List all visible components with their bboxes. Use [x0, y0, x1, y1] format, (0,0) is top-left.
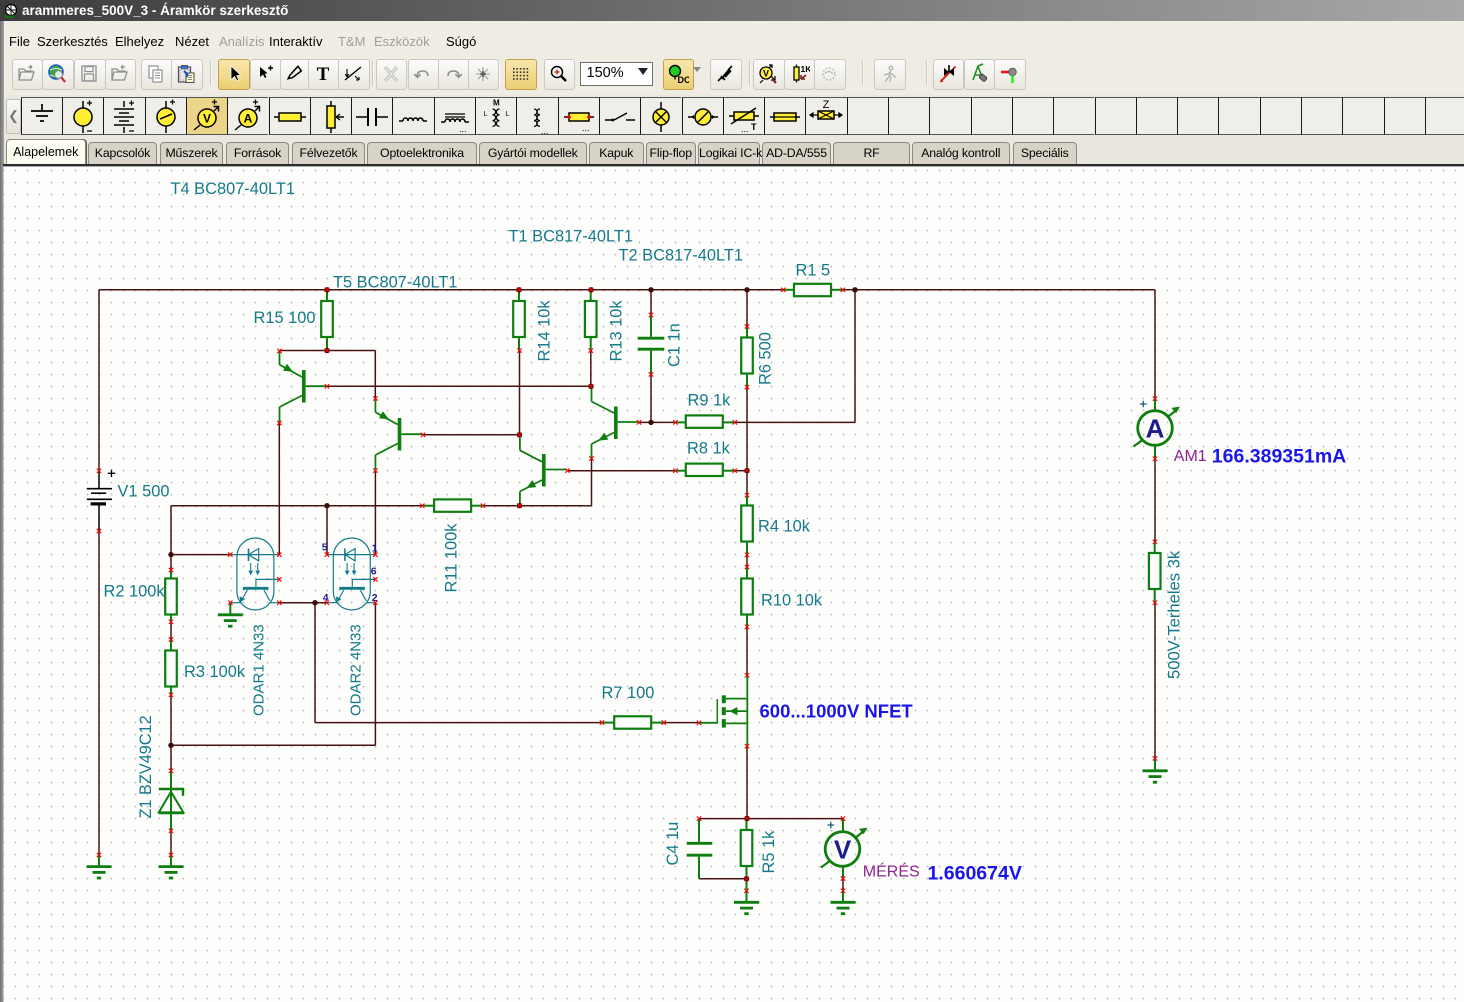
transistor T5 (PNP) — [280, 351, 327, 423]
svg-text:ODAR1 4N33: ODAR1 4N33 — [251, 624, 268, 716]
svg-text:6: 6 — [371, 566, 377, 578]
resistor R11 — [434, 499, 471, 511]
resistor 500V-Terheles — [1149, 553, 1161, 589]
wire: vertical to T4 emitter — [374, 351, 376, 399]
resistor R13 — [585, 301, 597, 337]
wire: R4 to R10 — [746, 555, 748, 567]
wire: R6 to R4 node — [746, 387, 748, 495]
ground (voltmeter) — [831, 891, 856, 914]
wire: bottom horizontal to zener node — [171, 744, 375, 746]
svg-text:MÉRÉS: MÉRÉS — [863, 862, 920, 881]
svg-text:...: ... — [582, 123, 590, 133]
wire: R13 bottom down to T1 collector node — [590, 351, 592, 387]
wire: node on R11 net down to ODAR2 LED pin 5 — [326, 506, 328, 555]
wire: C4 bottom to R5 bottom node — [699, 878, 747, 880]
svg-text:R10 10k: R10 10k — [761, 592, 823, 610]
transistor M1 (NFET 600...1000V) — [699, 675, 747, 746]
svg-text:DC: DC — [677, 75, 689, 85]
wire: horizontal to ODAR1 LED pin — [171, 554, 230, 556]
wire: T5 collector down to ODAR1 LED cathode — [278, 423, 280, 555]
svg-text:T5 BC807-40LT1: T5 BC807-40LT1 — [333, 274, 458, 292]
svg-text:T4 BC807-40LT1: T4 BC807-40LT1 — [171, 180, 296, 198]
wire: C1 top connection — [650, 290, 652, 315]
wire: R9 right to top rail riser — [735, 421, 855, 423]
svg-text:V: V — [834, 834, 852, 864]
wire: top rail to R6 — [746, 290, 748, 327]
wire: top supply rail — [99, 289, 783, 291]
wire: load resistor to ground — [1154, 603, 1156, 759]
wire: voltmeter lower lead — [842, 879, 844, 891]
svg-text:1.660674V: 1.660674V — [928, 863, 1022, 885]
svg-text:AM1: AM1 — [1174, 448, 1207, 465]
svg-text:R9 1k: R9 1k — [688, 392, 732, 410]
resistor R2 — [165, 579, 177, 615]
transistor T4 (PNP) — [375, 399, 422, 471]
svg-text:...: ... — [459, 124, 467, 134]
wire: battery negative to ground — [98, 531, 100, 855]
transistor T2 (NPN) — [520, 435, 567, 506]
svg-text:1K: 1K — [800, 64, 810, 74]
wire: T4 base to T2 collector node — [423, 434, 520, 436]
svg-text:T: T — [751, 122, 757, 132]
resistor R1 — [794, 284, 831, 296]
svg-text:5: 5 — [322, 542, 328, 554]
wire: ODAR2 pin 2 down — [374, 603, 376, 746]
wire: NFET source down to sense node — [746, 746, 748, 818]
svg-text:R1 5: R1 5 — [796, 262, 831, 280]
wire: R2 to R3 — [170, 622, 172, 640]
svg-text:V: V — [203, 111, 211, 125]
wire: gate drive node down — [314, 603, 316, 723]
zener diode Z1 — [159, 771, 184, 831]
resistor R4 — [741, 506, 753, 542]
svg-text:ODAR2 4N33: ODAR2 4N33 — [347, 624, 364, 716]
svg-text:R5 1k: R5 1k — [760, 830, 778, 874]
svg-text:500V-Terheles 3k: 500V-Terheles 3k — [1165, 550, 1184, 679]
svg-text:...: ... — [541, 126, 549, 136]
svg-text:R15 100: R15 100 — [254, 309, 316, 327]
ammeter AM1 — [1134, 399, 1181, 459]
resistor R6 — [741, 338, 753, 374]
wire: R11 right segment to T1 emitter corner — [483, 505, 592, 507]
wire: R14 bottom down to T2 collector node — [519, 351, 521, 435]
resistor R3 — [165, 651, 177, 687]
transistor T1 (NPN) — [592, 386, 639, 459]
wire: T1 emitter vertical — [591, 459, 593, 506]
svg-text:V: V — [763, 68, 769, 78]
wire: R11 left segment — [171, 505, 422, 507]
svg-text:T2 BC817-40LT1: T2 BC817-40LT1 — [619, 247, 744, 265]
wire: T2 base to R8 — [568, 470, 676, 472]
wire: right rail down to ammeter — [1154, 290, 1156, 399]
svg-text:R13 10k: R13 10k — [608, 300, 626, 362]
capacitor C1 — [638, 315, 665, 374]
capacitor C4 — [687, 819, 713, 879]
svg-text:R11 100k: R11 100k — [443, 523, 461, 593]
svg-text:T: T — [317, 64, 330, 85]
wire: left rail from top rail to battery — [98, 290, 100, 471]
ground (ODAR1 emitter) — [218, 603, 243, 627]
svg-text:V1 500: V1 500 — [118, 483, 170, 501]
resistor R10 — [741, 579, 753, 615]
svg-text:Z: Z — [823, 99, 830, 111]
ground (battery) — [87, 855, 112, 878]
svg-text:A: A — [244, 111, 253, 125]
svg-text:R8 1k: R8 1k — [687, 440, 731, 458]
wire: C1 bottom to R9 node — [650, 374, 652, 422]
svg-text:L: L — [506, 111, 510, 118]
svg-text:R7 100: R7 100 — [602, 684, 655, 702]
svg-text:166.389351mA: 166.389351mA — [1212, 446, 1346, 468]
svg-text:R3 100k: R3 100k — [184, 663, 246, 681]
resistor R15 — [321, 301, 333, 337]
wire: T5 emitter node horizontal (R15 bottom) — [280, 350, 375, 352]
svg-text:600...1000V NFET: 600...1000V NFET — [760, 701, 914, 722]
ground (load) — [1143, 758, 1168, 782]
resistor R14 — [513, 301, 525, 337]
wire: T5 base to T1 collector node — [327, 385, 591, 387]
svg-text:R2 100k: R2 100k — [104, 583, 166, 601]
resistor R9 — [686, 415, 723, 427]
wire: R10 to NFET drain — [746, 627, 748, 676]
optocoupler ODAR2 (4N33) — [327, 538, 376, 610]
resistor R7 — [614, 716, 651, 728]
wire: T4 collector down to ODAR2 pin 1 — [374, 471, 376, 555]
svg-text:L: L — [484, 111, 488, 118]
wire: zener to ground — [170, 831, 172, 855]
wire: R3 to zener node — [170, 695, 172, 771]
pin x marks on junctions — [325, 288, 749, 881]
connection point x marks — [97, 288, 1157, 893]
optocoupler ODAR1 (4N33) — [230, 538, 279, 610]
svg-text:Z1 BZV49C12: Z1 BZV49C12 — [137, 715, 155, 818]
svg-text:C1 1n: C1 1n — [666, 323, 684, 367]
wire: sense node horizontal C4 to voltmeter — [699, 818, 843, 820]
wire: ammeter to load resistor — [1154, 459, 1156, 542]
svg-text:M: M — [493, 98, 500, 107]
svg-text:C4 1u: C4 1u — [664, 822, 682, 866]
wire: left column to ODAR1 LED anode — [170, 506, 172, 570]
svg-text:R14 10k: R14 10k — [536, 300, 554, 362]
svg-text:T1 BC817-40LT1: T1 BC817-40LT1 — [509, 228, 634, 246]
svg-text:R4 10k: R4 10k — [758, 518, 811, 536]
wire: R8 right to divider column — [735, 470, 747, 472]
battery V1 — [87, 470, 115, 531]
resistor R5 — [741, 830, 753, 866]
svg-text:A: A — [1146, 413, 1165, 443]
resistor R8 — [686, 464, 723, 476]
svg-text:R6 500: R6 500 — [757, 332, 775, 385]
wire: gate drive horizontal to R7 — [315, 722, 602, 724]
ground (zener) — [159, 855, 184, 878]
wire: R7 to NFET gate — [664, 722, 699, 724]
wire: ODAR1 collector to ODAR2 pin 4 — [279, 602, 327, 604]
wire: riser to top rail — [854, 290, 856, 423]
svg-text:...: ... — [741, 124, 749, 134]
wire: T1 base to R9 — [639, 421, 676, 423]
ground (R5 bottom) — [734, 891, 759, 914]
voltmeter MÉRÉS — [821, 819, 868, 914]
